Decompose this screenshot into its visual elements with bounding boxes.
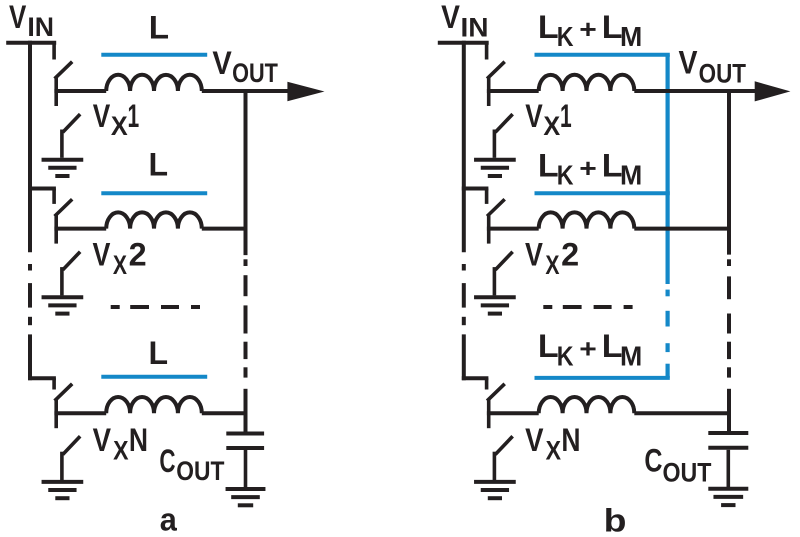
svg-text:V: V — [525, 237, 543, 273]
wire inductor right lead QNa — [202, 411, 248, 415]
switch low-side blade Q2a — [64, 253, 79, 269]
svg-text:M: M — [620, 21, 642, 52]
svg-text:+: + — [579, 14, 597, 44]
inductor QNb — [539, 397, 635, 413]
wire low-side to ground Q2a — [60, 267, 64, 295]
wire inductor left lead Q2a — [54, 227, 106, 231]
ground Q2a — [42, 295, 84, 299]
svg-text:+: + — [579, 333, 597, 363]
svg-text:N: N — [129, 422, 148, 458]
wire inductor left lead QNa — [54, 411, 106, 415]
svg-text:b: b — [604, 502, 627, 537]
svg-text:L: L — [538, 148, 559, 184]
svg-text:X: X — [113, 250, 127, 280]
inductor Q2a — [106, 212, 202, 228]
ground QNb — [474, 480, 516, 484]
switch high-side blade QNa — [56, 385, 71, 400]
switch low-side blade Q2b — [497, 253, 512, 269]
wire output bus (b) solid then dash-dot — [727, 89, 731, 255]
node V_X vertical Q2a — [54, 214, 58, 244]
wire phase-2 tap (b) — [462, 187, 489, 191]
wire inductor left lead Q2b — [487, 227, 539, 231]
svg-text:L: L — [149, 335, 169, 371]
wire VIN rail (b) — [438, 41, 489, 45]
switch high-side blade Q2b — [488, 201, 503, 216]
svg-text:V: V — [525, 422, 544, 458]
svg-text:K: K — [557, 160, 574, 191]
inductance bar L phase-2 (a) — [101, 191, 207, 195]
svg-text:K: K — [557, 21, 574, 52]
wire VIN bus (a) solid then dash-dot — [28, 41, 32, 253]
svg-text:K: K — [557, 340, 574, 371]
svg-text:L: L — [538, 9, 559, 45]
svg-text:N: N — [561, 422, 580, 458]
svg-text:X: X — [543, 111, 560, 141]
svg-text:V: V — [525, 98, 543, 134]
switch high-side blade Q2a — [56, 201, 71, 216]
svg-text:a: a — [160, 502, 177, 537]
arrow VOUT (b) — [755, 81, 791, 101]
wire phase-1 top stub (a) — [52, 41, 56, 60]
svg-text:X: X — [111, 111, 128, 141]
wire low-side to ground QNa — [60, 452, 64, 480]
svg-text:OUT: OUT — [699, 59, 747, 89]
svg-text:V: V — [679, 45, 699, 81]
switch high-side blade QNb — [488, 385, 503, 400]
wire VIN bus (b) solid then dash-dot — [462, 41, 466, 253]
svg-text:X: X — [113, 435, 128, 465]
coupling bar LK+LM phase-N (b) — [535, 376, 670, 380]
svg-text:IN: IN — [27, 12, 54, 42]
ellipsis dashed wire (b) — [543, 305, 552, 309]
svg-text:V: V — [93, 422, 112, 458]
wire inductor left lead Q1b — [487, 89, 539, 93]
coupling bar LK+LM phase-2 (b) — [535, 191, 670, 195]
capacitor COUT (b) — [708, 431, 748, 435]
svg-text:X: X — [545, 250, 559, 280]
svg-text:V: V — [441, 0, 460, 35]
svg-text:C: C — [644, 443, 662, 479]
ellipsis dashed wire (a) — [111, 305, 120, 309]
wire inductor right lead Q1a — [202, 89, 289, 93]
inductor Q2b — [539, 212, 635, 228]
svg-text:L: L — [149, 147, 169, 183]
svg-text:2: 2 — [561, 237, 579, 273]
node V_X vertical Q1b — [487, 77, 491, 107]
svg-text:V: V — [93, 98, 111, 134]
svg-text:OUT: OUT — [662, 458, 711, 488]
svg-text:X: X — [546, 435, 561, 465]
wire low-side to ground Q2b — [493, 267, 497, 295]
ground COUT (b) — [708, 487, 748, 491]
switch high-side blade Q1b — [488, 63, 503, 78]
ground QNa — [42, 480, 84, 484]
svg-text:L: L — [538, 328, 559, 364]
svg-text:M: M — [620, 160, 642, 191]
svg-text:+: + — [579, 153, 597, 183]
inductance bar L phase-N (a) — [101, 375, 207, 379]
inductor Q1a — [106, 75, 202, 91]
svg-text:M: M — [620, 340, 642, 371]
wire inductor right lead Q1b — [634, 89, 755, 93]
svg-text:V: V — [9, 0, 27, 35]
svg-text:V: V — [93, 237, 111, 273]
svg-text:OUT: OUT — [232, 58, 278, 88]
svg-text:1: 1 — [560, 98, 572, 134]
inductance bar L phase-1 (a) — [101, 53, 207, 57]
svg-text:V: V — [212, 45, 232, 81]
wire phase-N tap (a) — [28, 376, 56, 380]
coupling bar LK+LM phase-1 (b) — [535, 53, 670, 57]
ground Q1a — [42, 158, 84, 162]
switch low-side blade QNb — [497, 438, 512, 454]
ground Q2b — [474, 295, 516, 299]
wire phase-2 tap (a) — [28, 187, 56, 191]
node V_X vertical Q2b — [487, 214, 491, 244]
wire inductor right lead QNb — [634, 411, 731, 415]
node V_X vertical QNb — [487, 399, 491, 429]
wire inductor left lead Q1a — [54, 89, 106, 93]
wire coupling vertical (b) blue dash-dot — [665, 55, 669, 284]
wire low-side to ground Q1b — [493, 130, 497, 158]
switch low-side blade Q1b — [497, 115, 512, 131]
capacitor COUT (a) — [226, 432, 264, 436]
wire low-side to ground QNb — [493, 452, 497, 480]
wire inductor right lead Q2b — [634, 227, 731, 231]
wire phase-1 top stub (b) — [485, 41, 489, 60]
wire phase-N tap (b) — [462, 376, 489, 380]
arrow VOUT (a) — [287, 82, 324, 102]
svg-text:IN: IN — [461, 12, 489, 42]
node V_X vertical QNa — [54, 399, 58, 429]
switch low-side blade Q1a — [64, 115, 79, 131]
inductor QNa — [106, 397, 202, 413]
svg-text:OUT: OUT — [176, 456, 225, 486]
svg-text:C: C — [159, 443, 175, 479]
inductor Q1b — [539, 75, 635, 91]
wire low-side to ground Q1a — [60, 130, 64, 158]
ground COUT (a) — [226, 487, 266, 491]
wire inductor left lead QNb — [487, 411, 539, 415]
wire inductor right lead Q2a — [202, 227, 248, 231]
ground Q1b — [474, 158, 516, 162]
svg-text:2: 2 — [129, 237, 147, 273]
svg-text:1: 1 — [128, 98, 140, 134]
wire VIN rail (a) — [6, 41, 56, 45]
switch high-side blade Q1a — [56, 63, 71, 78]
wire output bus (a) solid then dashed — [244, 89, 248, 255]
svg-text:L: L — [149, 10, 169, 46]
node V_X vertical Q1a — [54, 77, 58, 107]
switch low-side blade QNa — [64, 438, 79, 454]
